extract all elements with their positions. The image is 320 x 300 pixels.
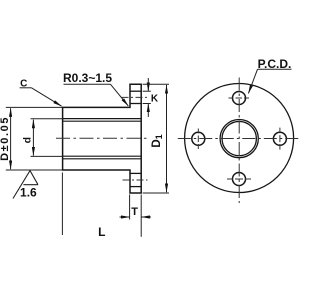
C label underline <box>20 87 32 89</box>
left hole crosshair <box>197 129 199 150</box>
main centerline of side view <box>56 137 148 139</box>
dimension d extension top <box>31 118 63 120</box>
dimension L extension left <box>61 173 63 236</box>
R label underline <box>64 83 111 85</box>
dimension D1 extension top <box>143 83 169 85</box>
bore line upper outer <box>63 118 142 120</box>
svg-text:D±0.05: D±0.05 <box>0 116 11 161</box>
svg-text:d: d <box>22 137 34 143</box>
dimension D extension top <box>6 106 62 108</box>
bore line lower outer <box>63 158 142 160</box>
bolt hole right <box>273 132 286 145</box>
bolt hole left <box>192 132 205 145</box>
dimension D1 extension bottom <box>143 192 169 194</box>
front view horizontal centerline <box>178 138 300 140</box>
bottom hole centerline <box>123 179 148 181</box>
R leader arrow <box>111 84 129 106</box>
dimension K upper arrow <box>147 78 149 91</box>
front view vertical centerline <box>238 78 240 204</box>
top hole crosshair <box>229 97 250 99</box>
dimension d line <box>32 120 34 156</box>
dimension T left arrow <box>120 216 130 218</box>
dimension T extension left <box>129 195 131 220</box>
dimension T extension right <box>140 195 142 237</box>
bottom hole crosshair <box>227 178 251 180</box>
bottom bolt hole edges in flange <box>130 173 141 186</box>
svg-text:T: T <box>131 206 138 218</box>
side view body outline <box>63 84 142 193</box>
dimension T right arrow <box>141 216 151 218</box>
bore line lower inner <box>63 155 142 157</box>
svg-text:P.C.D.: P.C.D. <box>258 57 292 71</box>
dimension D extension bottom <box>6 169 62 171</box>
dimension K lower arrow <box>147 104 149 118</box>
dimension K extension upper <box>143 90 151 92</box>
svg-text:R0.3~1.5: R0.3~1.5 <box>63 71 112 85</box>
front view bore outer circle <box>220 120 258 158</box>
dimension K extension lower <box>143 103 151 105</box>
front view bore inner circle <box>222 121 256 155</box>
svg-text:K: K <box>151 94 159 105</box>
right hole crosshair <box>279 128 281 150</box>
bolt hole top <box>233 92 246 105</box>
front view outer circle <box>185 84 294 193</box>
bore line upper inner <box>63 120 142 122</box>
surface finish triangle <box>13 171 38 199</box>
bolt hole bottom <box>233 173 246 186</box>
P.C.D. underline <box>258 68 292 70</box>
C leader arrow <box>32 88 62 106</box>
svg-text:L: L <box>98 225 105 239</box>
svg-text:1.6: 1.6 <box>20 185 37 199</box>
top bolt hole edges in flange <box>130 91 141 103</box>
dimension D line <box>10 108 12 169</box>
dimension D1 line <box>166 85 168 192</box>
P.C.D. leader arrow <box>248 69 257 93</box>
top hole centerline <box>122 96 149 98</box>
dimension d extension bottom <box>31 155 63 157</box>
